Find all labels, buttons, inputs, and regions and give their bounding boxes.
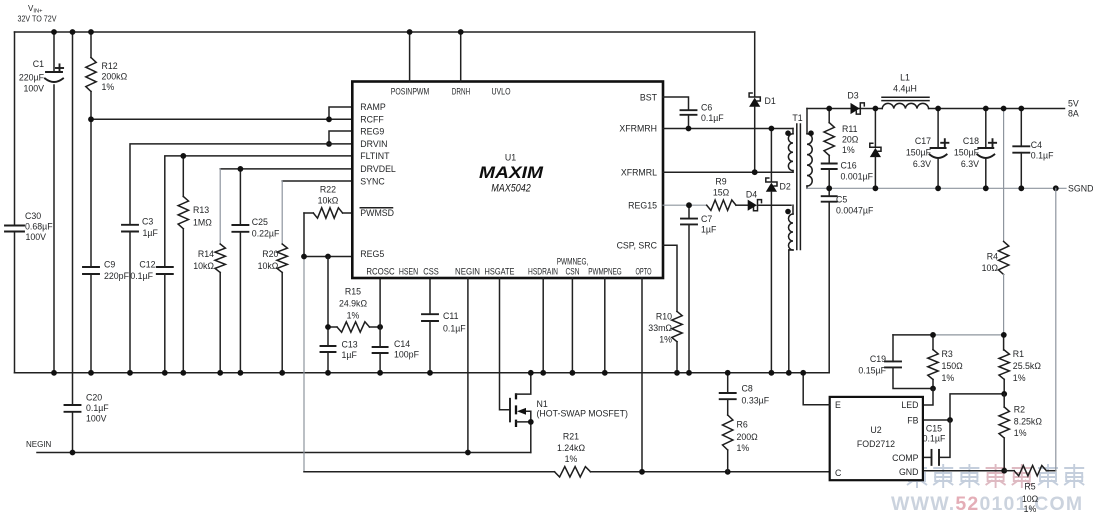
resistor R4 [1003, 109, 1005, 242]
svg-text:D3: D3 [847, 91, 858, 101]
resistor R13 [182, 156, 184, 197]
junction R1/R2 [1001, 391, 1007, 397]
svg-text:0.33µF: 0.33µF [742, 396, 770, 406]
capacitor C20 [72, 32, 74, 405]
svg-text:C8: C8 [742, 384, 753, 394]
wire XFRMRL line [663, 171, 793, 173]
svg-text:CSN: CSN [566, 266, 580, 276]
junction REG15/C7 [686, 202, 692, 208]
svg-text:200kΩ: 200kΩ [102, 72, 128, 82]
svg-text:C19: C19 [870, 354, 886, 364]
svg-text:8A: 8A [1068, 109, 1079, 119]
junction NEGIN/C20 [70, 450, 76, 456]
resistor R12 [90, 32, 92, 58]
svg-text:C30: C30 [25, 211, 41, 221]
resistor R2 [1003, 394, 1005, 407]
capacitor C14 [373, 346, 388, 348]
wire CSS column [429, 278, 431, 314]
svg-text:UVLO: UVLO [492, 87, 511, 97]
wire RCOSC column [379, 278, 381, 347]
wire RAMP to RCFF [329, 107, 352, 119]
svg-text:C11: C11 [443, 311, 459, 321]
svg-text:C: C [835, 468, 842, 478]
capacitor C6 [681, 109, 697, 111]
wire SGND rail [807, 187, 1066, 189]
svg-text:COMP: COMP [892, 453, 919, 463]
svg-text:OPTO: OPTO [636, 266, 652, 276]
svg-text:R14: R14 [198, 249, 214, 259]
inductor L1 [882, 96, 929, 98]
svg-text:1MΩ: 1MΩ [193, 218, 212, 228]
wire left input leg [14, 32, 16, 373]
svg-text:1.24kΩ: 1.24kΩ [557, 443, 586, 453]
capacitor C16 [828, 155, 830, 163]
wire XFRMRH line [663, 128, 793, 130]
svg-text:1%: 1% [565, 454, 578, 464]
svg-text:R22: R22 [320, 185, 336, 195]
svg-text:C20: C20 [86, 393, 102, 403]
junction FLTINT/R13 [180, 153, 186, 159]
svg-text:E: E [835, 400, 841, 410]
svg-text:150Ω: 150Ω [942, 361, 964, 371]
junction 5V/R11 [826, 106, 832, 112]
junction FB node [947, 417, 953, 423]
svg-text:1µF: 1µF [701, 225, 717, 235]
svg-text:150µF: 150µF [906, 147, 932, 157]
wire CSN column [571, 278, 573, 373]
junction N1 source [528, 419, 534, 425]
wire HSGATE column [500, 278, 511, 410]
svg-text:8.25kΩ: 8.25kΩ [1014, 417, 1043, 427]
junction bus/D2 column [769, 370, 775, 376]
svg-text:POSINPWM: POSINPWM [391, 87, 430, 97]
svg-text:C9: C9 [104, 260, 115, 270]
svg-text:10Ω: 10Ω [982, 263, 999, 273]
svg-text:1%: 1% [659, 335, 672, 345]
T1 primary phase dot lower [785, 209, 791, 215]
junction REG5/C13 [325, 254, 331, 260]
svg-text:C14: C14 [394, 339, 410, 349]
svg-text:1%: 1% [347, 311, 360, 321]
svg-text:DRNH: DRNH [452, 87, 471, 97]
wire FLTINT line [165, 156, 352, 267]
diode D2 [770, 129, 772, 182]
svg-text:25.5kΩ: 25.5kΩ [1013, 361, 1042, 371]
capacitor C8 [727, 373, 729, 393]
junction VIN+/C20 [70, 29, 76, 35]
svg-text:REG9: REG9 [360, 126, 384, 136]
capacitor C5 [828, 188, 830, 196]
junction XFRMRH/C6 [686, 126, 692, 132]
junction XFRMRL/D1 [752, 169, 758, 175]
svg-text:10kΩ: 10kΩ [318, 196, 339, 206]
svg-text:R3: R3 [942, 349, 953, 359]
svg-text:R1: R1 [1013, 349, 1024, 359]
svg-text:6.3V: 6.3V [913, 159, 931, 169]
svg-text:200Ω: 200Ω [737, 432, 759, 442]
junction bus/E [800, 370, 806, 376]
wire feedback top line [893, 334, 933, 336]
wire PWMPNEG column [604, 278, 606, 373]
svg-text:C5: C5 [836, 195, 847, 205]
junction OPTO/R21 [639, 469, 645, 475]
capacitor C15 [923, 456, 932, 458]
svg-text:C12: C12 [139, 260, 155, 270]
svg-text:100V: 100V [26, 232, 47, 242]
svg-text:20Ω: 20Ω [842, 134, 859, 144]
wire BST to C6 [663, 97, 689, 110]
svg-text:0.68µF: 0.68µF [25, 222, 53, 232]
svg-text:24.9kΩ: 24.9kΩ [339, 299, 368, 309]
wire DRVIN line [130, 144, 352, 225]
capacitor C12 [157, 266, 173, 268]
junction REG9/DRVIN [326, 141, 332, 147]
svg-text:NEGIN: NEGIN [455, 266, 480, 276]
capacitor C13 [327, 257, 329, 347]
svg-text:WWW.520101.COM: WWW.520101.COM [891, 493, 1083, 512]
svg-text:FOD2712: FOD2712 [857, 439, 895, 449]
junction R3 top [930, 332, 936, 338]
wire HSDRAIN column [542, 278, 544, 373]
T1 primary winding lower [792, 205, 794, 214]
svg-text:1%: 1% [1024, 504, 1037, 512]
svg-text:NEGIN: NEGIN [26, 440, 52, 449]
capacitor C19 [892, 335, 894, 362]
wire 5V output rail [807, 108, 1065, 110]
junction VIN+/R12 [88, 29, 94, 35]
junction SGND/C16/C5 [826, 185, 832, 191]
svg-text:R20: R20 [262, 249, 278, 259]
svg-text:LED: LED [901, 400, 918, 410]
wire GND pin line [923, 470, 1004, 472]
wire POSINPWM column [409, 32, 411, 82]
svg-text:100V: 100V [23, 84, 44, 94]
svg-text:220µF: 220µF [19, 73, 45, 83]
wire NEGIN pin column [467, 278, 469, 453]
svg-text:0.1µF: 0.1µF [1031, 150, 1054, 160]
svg-text:C17: C17 [915, 136, 931, 146]
junction REG5/R22 [301, 254, 307, 260]
capacitor C4 [1020, 109, 1022, 147]
resistor R15 [337, 322, 370, 332]
junction R4/R1 [1001, 332, 1007, 338]
svg-text:5V: 5V [1068, 98, 1079, 108]
svg-text:C3: C3 [142, 217, 153, 227]
transistor N1 hot-swap MOSFET [509, 399, 511, 422]
resistor R5 [1004, 470, 1014, 472]
wire CSP,SRC to R10 [663, 245, 677, 311]
svg-text:XFRMRL: XFRMRL [621, 167, 657, 177]
T1 secondary winding [806, 109, 808, 134]
resistor R3 [932, 335, 934, 350]
svg-text:R13: R13 [193, 205, 209, 215]
svg-text:U2: U2 [870, 425, 881, 435]
svg-text:C15: C15 [926, 424, 942, 434]
svg-text:C1: C1 [33, 59, 44, 69]
svg-text:R10: R10 [656, 311, 672, 321]
svg-text:1µF: 1µF [143, 228, 159, 238]
svg-text:15Ω: 15Ω [713, 187, 730, 197]
junction XFRMRH/D2 [769, 126, 775, 132]
capacitor C18 (electrolytic) [985, 109, 987, 148]
svg-text:XFRMRH: XFRMRH [619, 124, 657, 134]
T1 primary winding upper [792, 129, 794, 134]
svg-text:0.15µF: 0.15µF [858, 365, 886, 375]
svg-text:1%: 1% [102, 82, 115, 92]
svg-text:0.1µF: 0.1µF [130, 271, 153, 281]
resistor R21 [304, 471, 555, 473]
diode D3 [856, 103, 864, 114]
wire R5 to SGND column [1055, 188, 1057, 470]
capacitor C9 [90, 119, 92, 267]
junction R6/R21 line [725, 469, 731, 475]
junction SGND/R5 column [1053, 185, 1059, 191]
svg-text:C18: C18 [963, 136, 979, 146]
svg-text:0.1µF: 0.1µF [443, 324, 466, 334]
svg-text:1%: 1% [737, 443, 750, 453]
resistor R9 [707, 200, 736, 210]
svg-text:DRVDEL: DRVDEL [360, 164, 396, 174]
op-amp U1 MAX5042 [352, 82, 663, 279]
wire FB link [923, 394, 1004, 420]
capacitor C17 (electrolytic) [937, 109, 939, 148]
svg-text:0.0047µF: 0.0047µF [836, 205, 874, 215]
svg-text:R15: R15 [345, 287, 361, 297]
wire REG15 line [663, 204, 707, 206]
svg-text:REG15: REG15 [628, 200, 657, 210]
svg-text:RCFF: RCFF [360, 114, 384, 124]
svg-text:100V: 100V [86, 414, 107, 424]
T1 secondary phase dot [808, 130, 814, 136]
svg-text:R11: R11 [842, 124, 858, 134]
svg-text:C7: C7 [701, 214, 712, 224]
svg-text:0.001µF: 0.001µF [841, 171, 874, 181]
svg-text:C6: C6 [701, 103, 712, 113]
svg-text:PWMPNEG: PWMPNEG [588, 266, 622, 276]
diode D1 [754, 32, 756, 97]
resistor R1 [1003, 335, 1005, 350]
wire REG5 line [304, 256, 352, 258]
svg-text:C4: C4 [1031, 140, 1042, 150]
svg-text:HSGATE: HSGATE [485, 266, 515, 276]
svg-text:C25: C25 [252, 217, 268, 227]
svg-text:6.3V: 6.3V [961, 159, 979, 169]
capacitor C25 [239, 169, 241, 225]
capacitor C7 [688, 205, 690, 218]
svg-text:220pF: 220pF [104, 271, 130, 281]
svg-text:1%: 1% [942, 373, 955, 383]
svg-text:HSDRAIN: HSDRAIN [528, 266, 558, 276]
capacitor C11 [422, 313, 438, 315]
svg-text:1%: 1% [842, 145, 855, 155]
wire SYNC line [282, 180, 352, 182]
capacitor C30 [5, 225, 24, 227]
capacitor C1 (electrolytic) [53, 32, 55, 72]
svg-text:4.4µH: 4.4µH [893, 84, 917, 94]
resistor R22 [313, 208, 342, 218]
svg-text:RAMP: RAMP [360, 102, 386, 112]
svg-text:N1: N1 [537, 399, 548, 409]
junction RAMP/RCFF [326, 116, 332, 122]
svg-text:FB: FB [907, 415, 918, 425]
svg-text:R12: R12 [102, 61, 118, 71]
svg-text:FLTINT: FLTINT [360, 151, 390, 161]
junction R12/C9/RCFF [88, 116, 94, 122]
svg-text:D2: D2 [780, 182, 791, 192]
svg-text:DRVIN: DRVIN [360, 139, 387, 149]
diode catch (freewheel) [874, 109, 876, 148]
svg-text:R21: R21 [563, 432, 579, 442]
resistor R14 [215, 244, 225, 273]
wire RCFF line [91, 118, 352, 120]
svg-text:CSP, SRC: CSP, SRC [617, 240, 658, 250]
wire OPTO column [641, 278, 643, 472]
svg-text:MAXIM: MAXIM [479, 164, 544, 182]
svg-text:33mΩ: 33mΩ [648, 323, 672, 333]
T1 primary phase dot upper [785, 130, 791, 136]
svg-text:150µF: 150µF [954, 147, 980, 157]
resistor R6 [727, 399, 729, 415]
svg-text:R5: R5 [1024, 482, 1035, 492]
svg-text:C16: C16 [841, 161, 857, 171]
wire NEGIN rail [37, 452, 531, 454]
junction N1 drain / bus [528, 370, 534, 376]
svg-text:GND: GND [899, 467, 919, 477]
svg-text:32V TO 72V: 32V TO 72V [18, 15, 58, 24]
svg-text:R2: R2 [1014, 404, 1025, 414]
wire REG5 pull-down column to R21 [303, 213, 305, 257]
svg-text:1%: 1% [1013, 373, 1026, 383]
resistor R11 [828, 109, 830, 123]
junction R15/C13 [325, 324, 331, 330]
watermark chinese characters row [907, 464, 927, 488]
svg-text:R9: R9 [715, 176, 726, 186]
svg-text:U1: U1 [505, 153, 516, 163]
svg-text:0.1µF: 0.1µF [923, 433, 946, 443]
svg-text:(HOT-SWAP MOSFET): (HOT-SWAP MOSFET) [537, 409, 628, 419]
svg-text:10kΩ: 10kΩ [258, 261, 279, 271]
svg-text:MAX5042: MAX5042 [491, 183, 531, 195]
wire DRVDEL line [220, 168, 352, 170]
wire DRNH column [460, 32, 462, 82]
svg-text:CSS: CSS [423, 266, 439, 276]
svg-text:C13: C13 [342, 340, 358, 350]
wire E pin to bus [803, 373, 830, 405]
junction DRVDEL/C25 [238, 166, 244, 172]
svg-text:SGND: SGND [1068, 184, 1093, 194]
svg-text:PWMNEG,: PWMNEG, [557, 257, 589, 267]
svg-text:0.1µF: 0.1µF [701, 113, 724, 123]
diode D4 [736, 204, 748, 206]
svg-text:0.1µF: 0.1µF [86, 403, 109, 413]
junction GND/R2/R5 [1001, 468, 1007, 474]
svg-text:HSEN: HSEN [399, 266, 418, 276]
svg-text:SYNC: SYNC [360, 176, 385, 186]
opto-coupler U2 FOD2712 [830, 397, 923, 480]
svg-text:PWMSD: PWMSD [360, 208, 394, 218]
resistor R20 [277, 244, 287, 273]
svg-text:0.22µF: 0.22µF [252, 229, 280, 239]
svg-text:10Ω: 10Ω [1022, 494, 1039, 504]
svg-text:1%: 1% [1014, 428, 1027, 438]
wire VIN+ top rail [15, 31, 755, 33]
svg-text:L1: L1 [900, 73, 910, 83]
junction bus/primary lower [786, 370, 792, 376]
svg-text:T1: T1 [792, 113, 802, 123]
svg-text:10kΩ: 10kΩ [193, 261, 214, 271]
svg-text:1µF: 1µF [342, 350, 358, 360]
svg-text:REG5: REG5 [360, 249, 384, 259]
wire PWMNEG bottom bus [15, 372, 830, 374]
svg-text:R6: R6 [737, 420, 748, 430]
T1 core [796, 124, 798, 250]
svg-text:100pF: 100pF [394, 350, 420, 360]
svg-text:BST: BST [640, 92, 658, 102]
svg-text:R4: R4 [987, 251, 998, 261]
junction VIN+/C1 [51, 29, 57, 35]
resistor R10 [672, 311, 682, 341]
junction R3 bottom / LED [930, 386, 936, 392]
capacitor C3 [122, 224, 138, 226]
svg-text:D4: D4 [746, 190, 757, 200]
svg-text:RCOSC: RCOSC [366, 266, 395, 276]
wire LED pin [923, 389, 933, 406]
junction R15/RCOSC/C14 [377, 324, 383, 330]
svg-text:D1: D1 [765, 96, 776, 106]
wire REG9 to DRVIN [329, 131, 352, 144]
junction dots on PWMNEG bus [51, 370, 57, 376]
